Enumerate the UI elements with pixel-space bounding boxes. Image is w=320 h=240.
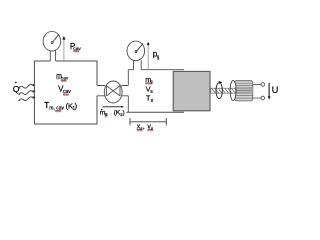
cylinder gas text T_s: [146, 94, 154, 104]
label x_s, v_s: [137, 124, 154, 132]
cylinder bottom wall / leader line: [126, 111, 184, 113]
pressure gauge P_cav dial: [43, 31, 61, 51]
piston block: [173, 71, 210, 110]
svg-text:,: ,: [143, 124, 145, 131]
label m-dot_a (K2) with long arrow over it: [100, 106, 125, 118]
generator terminal wires: [253, 84, 261, 98]
cylinder top wall: [128, 69, 184, 71]
arrow p_s (vertical, head at top): [147, 42, 150, 70]
arrow p_cav (vertical, dot/head at top): [62, 36, 65, 61]
svg-text:Q: Q: [13, 84, 20, 94]
pipe valve to cylinder: [121, 86, 128, 96]
svg-text:): ): [75, 101, 77, 110]
cavern box text m_cav: [56, 73, 69, 82]
svg-text:): ): [123, 110, 125, 117]
pressure gauge p_s dial: [127, 41, 145, 61]
heat arrow 3 (wavy): [18, 96, 35, 101]
terminal circles: [261, 83, 265, 87]
heat arrow 2 (wavy): [18, 90, 35, 95]
label p_s: [153, 49, 160, 59]
svg-text:U: U: [272, 85, 279, 95]
gauge stub p_s: [134, 60, 142, 69]
cylinder left wall: [127, 70, 129, 112]
throttle valve circle: [104, 81, 122, 103]
generator end cap ellipse (white): [230, 81, 236, 101]
cylinder gas text m_s: [145, 75, 153, 85]
piston rod shaft (hatched): [211, 88, 236, 93]
heat flow label Q-dot: [13, 82, 20, 94]
voltage arrow U (down): [268, 83, 271, 100]
cavern box text T_m,cav (K1): [44, 101, 77, 112]
pipe cavern to valve: [97, 86, 105, 96]
gauge stub P_cav: [50, 50, 55, 61]
cavern vessel box (left): [34, 61, 97, 124]
throttle valve bowtie: [106, 86, 120, 96]
cylinder gas text V_s: [146, 84, 154, 94]
generator body: [235, 81, 253, 101]
heat arrow 1 (wavy): [18, 84, 35, 89]
label P_cav: [70, 42, 81, 52]
cavern box text V_cav: [58, 85, 71, 96]
generator end cap outline: [230, 81, 236, 101]
dimension line x_s v_s: [130, 118, 166, 125]
rotation arrow on shaft: [216, 81, 222, 99]
